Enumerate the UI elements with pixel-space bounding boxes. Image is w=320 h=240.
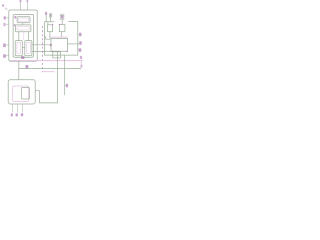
wire A to B connector (22, 23, 24, 25)
block R1 right outer box (top edge has gap) (45, 22, 78, 56)
wire bottom leader 2 (17, 104, 19, 112)
antenna ANT2 head box (60, 14, 64, 19)
wire dashed boundary line (41, 26, 43, 72)
node right label 3 (79, 48, 82, 52)
block A inner pink (19, 18, 29, 21)
wire tick left label 2 (6, 24, 9, 26)
wire leader label10 (19, 2, 21, 10)
antenna ANT1 arm left (45, 15, 47, 21)
wire W2 from R2 through B3 down and to bottom box (35, 51, 57, 103)
wire S1 down to R2 (49, 32, 51, 39)
block C inner pink (17, 42, 21, 53)
block D inner pink (27, 42, 31, 53)
wire long horizontal bus (19, 68, 81, 70)
block A top bar green (17, 17, 30, 23)
node label 10 above left box (20, 0, 22, 2)
block R2 inner box (51, 38, 68, 51)
node label below C and D (21, 56, 24, 59)
wire C to D mid connector (22, 46, 25, 48)
node purple dot S1 corner (52, 24, 53, 25)
wire ANT2 stem (61, 20, 63, 25)
block S2 square (59, 25, 65, 32)
wire B to CD pink center (23, 32, 25, 41)
wire leader from asterisk to outer box corner (5, 8, 8, 10)
node label 12 above left box (27, 0, 29, 2)
wire D to B3 horizontal 2 (32, 51, 53, 53)
block U1 left outer box (9, 10, 37, 61)
node purple dot R2 bottom-right corner (67, 51, 68, 53)
block battery pink box (13, 86, 29, 101)
wire tick left label 3 (6, 44, 9, 46)
wire bottom leader 1 (12, 104, 14, 112)
wire W1 vertical from right box bottom (64, 55, 66, 95)
wire D to R2 horizontal 1 (32, 44, 51, 46)
wire tick left label 4 (6, 55, 9, 57)
wire pink band below right box (10, 60, 83, 62)
wire B to D connector (27, 32, 29, 41)
node bottom label 2 (16, 113, 18, 116)
wire left box down to bottom box (18, 61, 20, 80)
wire S2 down to pink line (60, 32, 62, 37)
wire R2 to right edge and label (68, 43, 80, 45)
wire B to C connector (18, 32, 20, 41)
block battery inner green box (21, 87, 29, 99)
node label at bus right end (81, 65, 83, 68)
wire leader label12 (26, 2, 28, 10)
wire ANT1 stem (47, 22, 49, 25)
wire pink line2 (42, 71, 55, 73)
antenna ANT1 head box (49, 14, 52, 18)
wire tick W1 label (64, 84, 67, 86)
node asterisk reference mark top-left (2, 4, 5, 7)
wire bottom leader 3 (22, 104, 24, 112)
node right label 4 (80, 56, 82, 59)
node label near block A (14, 16, 16, 19)
node right label 2 (79, 41, 81, 45)
node bottom label 3 (21, 113, 23, 116)
node left label 4 (3, 54, 6, 57)
wire stub into R2 (46, 36, 51, 39)
wire pink band right descender (80, 61, 82, 65)
wire tick right label 1 (78, 34, 79, 36)
node left label 2 (4, 23, 6, 26)
node left label 1 (4, 16, 6, 19)
block BOT bottom outer box (8, 80, 35, 104)
node label right of W1 (66, 84, 68, 87)
block B inner pink (17, 27, 29, 31)
node right label 1 (79, 33, 81, 37)
wire tick right label 3 (77, 49, 80, 51)
block B second bar green (15, 25, 31, 32)
antenna ANT1 arm right (50, 17, 52, 22)
block B3 connector box bottom of R1 (53, 52, 61, 58)
wire pink top line over R2 (51, 36, 68, 38)
node bottom label 1 (11, 113, 13, 116)
antenna ANT1 head fill (50, 14, 51, 16)
block S1 square (48, 25, 53, 32)
wire tick left label 1 (6, 17, 9, 19)
block U2 left inner container (13, 14, 33, 57)
antenna ANT2 head fill (61, 15, 63, 19)
antenna ANT1 label purple (45, 12, 47, 15)
block C left vertical rect green (15, 41, 22, 56)
node label left of block B (14, 24, 15, 26)
node label left of R2 (50, 44, 52, 46)
block D right vertical rect green (25, 41, 32, 56)
node purple dot S2 corner (59, 24, 60, 25)
node label on bus (26, 65, 29, 68)
node purple dot B3 top-left junction (52, 51, 53, 52)
node left label 3 (3, 44, 6, 48)
